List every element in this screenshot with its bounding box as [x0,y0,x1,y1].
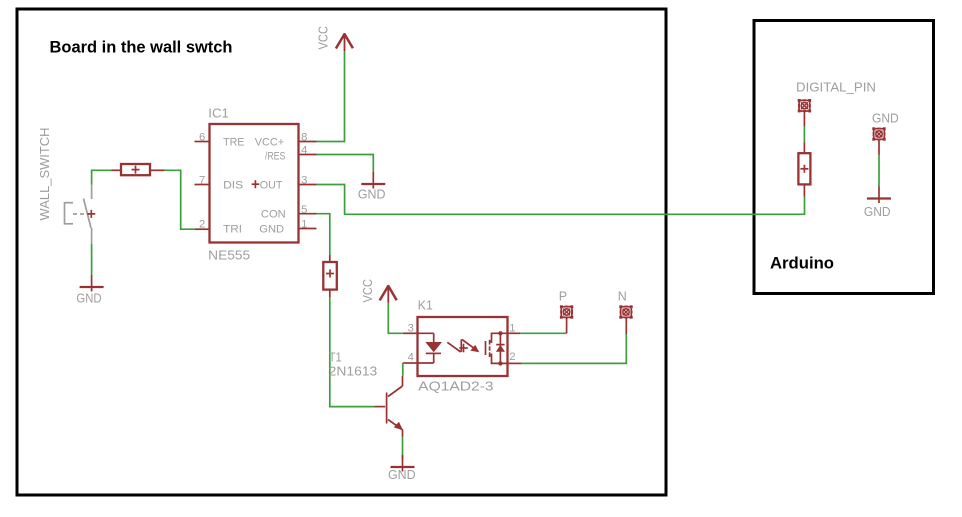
svg-text:7: 7 [199,175,205,187]
resistor R2 bottom pin [329,290,331,297]
pad GND (arduino) [872,127,885,140]
wire K1 pin 2 to pad N [522,334,627,363]
pin 2 TRI [195,228,210,230]
svg-text:GND: GND [259,224,284,236]
relay K1 AQ1AD2-3 [418,317,508,376]
svg-text:2: 2 [509,351,515,363]
svg-text:K1: K1 [418,299,433,313]
wire pin 8 to VCC [317,51,345,142]
resistor R1 [121,164,150,175]
svg-text:GND: GND [388,468,416,482]
resistor R1 right pin [150,169,165,171]
wire VCC2 to K1 pin 3 [388,303,403,333]
pin 5 CON [299,213,317,215]
svg-text:DIGITAL_PIN: DIGITAL_PIN [796,81,876,95]
svg-text:3: 3 [301,175,307,187]
wire switch to ground [91,244,93,275]
svg-text:VCC: VCC [361,279,375,303]
supply VCC1 [336,33,353,51]
wire K1 pin 4 to T1 collector [402,363,404,376]
board frame [17,9,666,495]
wire digital pin to R3 [803,126,805,142]
svg-text:GND: GND [864,205,891,219]
K1 internal LED [418,333,443,363]
K1 internal MOSFET [486,331,508,366]
svg-text:/RES: /RES [265,151,286,163]
wire R2 to T1 base [330,297,375,407]
wire pin 3 to Arduino digital pin [317,185,805,215]
K1 pin 2 [508,362,522,364]
resistor R2 top pin [329,255,331,262]
pin 3 OUT [299,184,317,186]
svg-text:2N1613: 2N1613 [329,365,378,379]
pad N [619,305,632,318]
ground GND1 (switch) [80,275,104,292]
pad P [560,305,573,318]
pin 4 /RES [299,154,317,156]
svg-text:VCC: VCC [317,26,331,50]
svg-text:5: 5 [301,204,307,216]
svg-text:Arduino: Arduino [770,254,834,273]
wire T1 emitter to ground [402,437,404,460]
ground GND3 (emitter) [391,455,415,472]
svg-text:GND: GND [76,292,101,306]
svg-text:4: 4 [408,351,414,363]
wire pin 4 to ground [317,155,374,173]
pin 7 DIS [195,184,210,186]
resistor R2 [323,262,337,290]
K1 opto arrow [447,339,479,352]
svg-text:OUT: OUT [260,180,283,192]
IC IC1 NE555 [210,124,299,243]
ground GND2 (pin 4) [361,172,385,189]
svg-text:1: 1 [301,218,307,230]
ground GND4 (arduino) [867,187,891,204]
transistor T1 2N1613 [375,376,404,437]
wire switch to R1 [92,170,112,184]
svg-text:3: 3 [408,322,414,334]
svg-text:P: P [559,289,567,303]
K1 pin 4 [403,362,418,364]
svg-text:TRE: TRE [223,136,245,148]
svg-text:AQ1AD2-3: AQ1AD2-3 [418,380,493,394]
pin 1 GND [299,228,317,230]
svg-text:CON: CON [261,209,286,221]
switch S1 WALL_SWITCH [65,185,96,245]
svg-text:4: 4 [301,145,307,157]
supply VCC2 (K1) [380,285,397,303]
pad DIGITAL_PIN [798,99,811,112]
svg-text:DIS: DIS [223,180,244,192]
wire R1 to pin 2 [165,170,195,229]
svg-text:N: N [618,289,627,303]
svg-text:GND: GND [872,111,899,125]
wire K1 pin 1 to pad P [520,332,567,334]
pin 8 VCC+ [299,141,317,143]
svg-text:IC1: IC1 [208,107,229,121]
svg-text:TRI: TRI [223,224,242,236]
svg-text:VCC+: VCC+ [255,136,285,148]
resistor R3 [798,153,810,184]
svg-text:GND: GND [358,187,386,201]
wire pin 5 to R2 [317,214,330,255]
K1 pin 3 [403,332,418,334]
wire arduino gnd [878,155,880,187]
arduino frame [754,21,934,294]
pin 6 TRE [195,141,210,143]
svg-text:2: 2 [199,218,205,230]
svg-text:NE555: NE555 [208,248,250,262]
svg-text:6: 6 [199,132,205,144]
svg-text:T1: T1 [329,350,342,364]
K1 pin 1 [508,332,521,334]
resistor R1 left pin [112,169,122,171]
svg-text:1: 1 [509,322,515,334]
svg-text:8: 8 [301,132,307,144]
svg-text:Board in the wall swtch: Board in the wall swtch [50,37,233,56]
svg-text:WALL_SWITCH: WALL_SWITCH [38,128,52,221]
